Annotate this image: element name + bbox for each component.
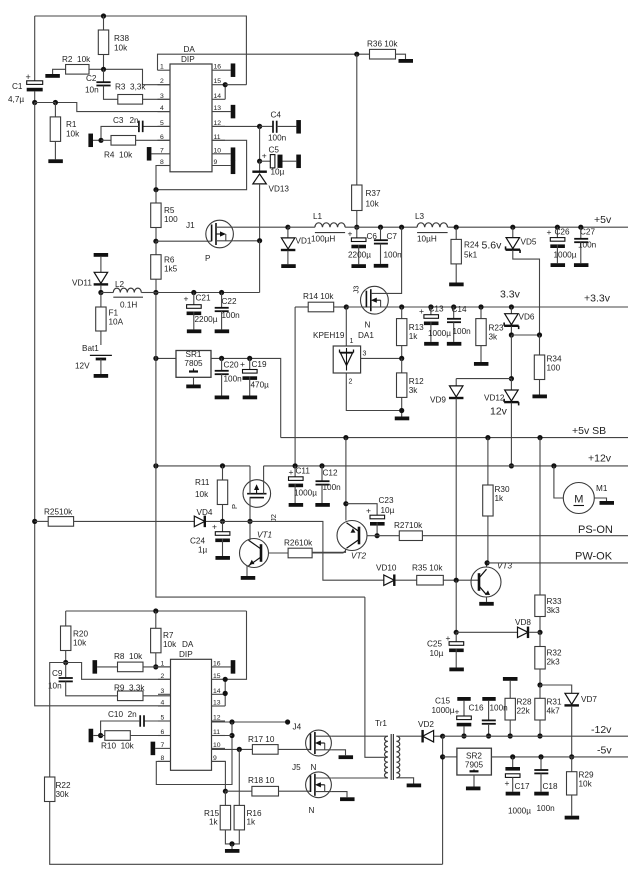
transistor J5 (N-MOSFET) bbox=[292, 763, 388, 815]
svg-text:2: 2 bbox=[161, 673, 165, 680]
IC2 pin stubs and pin numbers bbox=[155, 660, 231, 762]
svg-text:R8 10k: R8 10k bbox=[114, 652, 143, 661]
svg-text:4: 4 bbox=[161, 700, 165, 707]
svg-text:R2 10k: R2 10k bbox=[62, 55, 91, 64]
svg-text:C9: C9 bbox=[52, 669, 63, 678]
svg-text:C19: C19 bbox=[252, 360, 267, 369]
transistor VT1 (NPN) bbox=[240, 521, 273, 576]
wire -5v rail bbox=[491, 756, 628, 758]
transistor J2 (P-MOSFET +12v switch) bbox=[230, 466, 278, 524]
ground below VD1 bbox=[281, 264, 296, 268]
transistor VT2 (PNP) bbox=[312, 521, 377, 561]
capacitor C18 bbox=[534, 754, 558, 813]
label +5v SB bbox=[572, 425, 606, 437]
svg-text:DIP: DIP bbox=[179, 650, 193, 659]
wire PW-OK rail bbox=[487, 562, 628, 564]
svg-text:R7: R7 bbox=[163, 631, 174, 640]
diode VD2 bbox=[418, 720, 445, 742]
resistor R7 bbox=[151, 611, 178, 670]
wire R11/J2 feed from +12v rail bbox=[155, 465, 157, 467]
svg-text:10k: 10k bbox=[195, 490, 209, 499]
svg-text:DIP: DIP bbox=[181, 55, 195, 64]
wire +5v SB rail bbox=[281, 437, 628, 439]
resistor R9 bbox=[114, 684, 171, 701]
svg-text:7: 7 bbox=[161, 742, 165, 749]
svg-text:1µ: 1µ bbox=[198, 546, 208, 555]
capacitor C3 bbox=[101, 116, 170, 140]
ground below R15/R16 bbox=[225, 849, 240, 853]
svg-text:10n: 10n bbox=[85, 86, 99, 95]
wire +3.3v rail bbox=[346, 306, 628, 308]
battery Bat1 bbox=[75, 344, 112, 374]
svg-text:C22: C22 bbox=[222, 297, 237, 306]
svg-text:5.6v: 5.6v bbox=[482, 240, 503, 252]
ground at IC1 pin10 bbox=[231, 147, 236, 161]
svg-text:1000µ: 1000µ bbox=[508, 807, 531, 816]
svg-text:VD8: VD8 bbox=[515, 618, 531, 627]
svg-text:12V: 12V bbox=[75, 362, 90, 371]
resistor R4 bbox=[88, 134, 170, 160]
svg-text:C26: C26 bbox=[555, 228, 570, 237]
svg-text:VD11: VD11 bbox=[72, 279, 92, 288]
ground above C15 bbox=[457, 697, 470, 701]
svg-text:10k: 10k bbox=[114, 44, 128, 53]
svg-text:1: 1 bbox=[161, 660, 165, 667]
capacitor C14 bbox=[447, 304, 471, 342]
svg-text:P: P bbox=[205, 254, 211, 263]
svg-text:+: + bbox=[547, 227, 552, 237]
label PW-OK bbox=[575, 551, 613, 563]
svg-text:L3: L3 bbox=[415, 212, 425, 221]
svg-text:100: 100 bbox=[547, 364, 561, 373]
svg-text:C16: C16 bbox=[469, 704, 484, 713]
svg-text:R20: R20 bbox=[73, 630, 88, 639]
svg-text:R29: R29 bbox=[579, 771, 594, 780]
svg-text:15: 15 bbox=[214, 78, 222, 85]
svg-text:R2510k: R2510k bbox=[44, 508, 73, 517]
resistor R31 bbox=[535, 685, 562, 739]
svg-text:R10 10k: R10 10k bbox=[101, 742, 135, 751]
svg-text:R38: R38 bbox=[114, 34, 129, 43]
svg-text:100n: 100n bbox=[323, 483, 342, 492]
diode VD8 bbox=[454, 580, 540, 638]
svg-text:R13: R13 bbox=[409, 323, 424, 332]
wire battery +12V feed line bbox=[156, 292, 260, 294]
svg-text:10k: 10k bbox=[73, 639, 87, 648]
svg-text:3.3v: 3.3v bbox=[500, 289, 521, 301]
node R2/R38/C2 bbox=[101, 67, 106, 72]
ground below C13 bbox=[424, 342, 439, 346]
ground below SR1 bbox=[186, 385, 201, 389]
svg-text:5: 5 bbox=[160, 120, 164, 127]
svg-text:4k7: 4k7 bbox=[547, 707, 561, 716]
wire top net from C1 to pin15 riser bbox=[35, 13, 247, 84]
resistor R38 bbox=[98, 16, 129, 69]
capacitor C20 bbox=[215, 356, 242, 396]
svg-text:+: + bbox=[240, 359, 245, 369]
svg-text:Tr1: Tr1 bbox=[375, 719, 387, 728]
svg-text:R28: R28 bbox=[517, 698, 532, 707]
fuse F1 bbox=[96, 293, 124, 346]
svg-text:VD10: VD10 bbox=[376, 564, 397, 573]
svg-text:100n: 100n bbox=[453, 327, 472, 336]
svg-text:R18 10: R18 10 bbox=[248, 776, 275, 785]
svg-text:10µ: 10µ bbox=[271, 168, 285, 177]
resistor R26 bbox=[269, 539, 346, 558]
svg-text:R37: R37 bbox=[366, 189, 381, 198]
ground below C25 bbox=[449, 668, 464, 672]
svg-text:1: 1 bbox=[160, 64, 164, 71]
svg-text:3: 3 bbox=[161, 688, 165, 695]
capacitor C16 bbox=[469, 701, 509, 739]
resistor R16 bbox=[229, 749, 262, 849]
ground below R23 bbox=[474, 362, 489, 366]
wire left border bbox=[35, 103, 171, 706]
svg-text:VT1: VT1 bbox=[257, 531, 272, 540]
ground below C21 bbox=[187, 329, 202, 333]
svg-text:10k: 10k bbox=[366, 200, 380, 209]
capacitor C4 bbox=[212, 111, 296, 143]
capacitor C7 bbox=[374, 225, 402, 264]
svg-text:+: + bbox=[366, 506, 371, 516]
svg-text:1000µ: 1000µ bbox=[294, 489, 317, 498]
capacitor C6 bbox=[348, 227, 378, 264]
svg-text:470µ: 470µ bbox=[251, 381, 270, 390]
svg-text:J4: J4 bbox=[293, 723, 302, 732]
svg-text:C23: C23 bbox=[379, 496, 394, 505]
svg-text:PW-OK: PW-OK bbox=[575, 551, 613, 563]
ground at IC2 pin7 bbox=[151, 742, 156, 756]
svg-text:+: + bbox=[262, 151, 267, 161]
svg-text:12: 12 bbox=[213, 715, 221, 722]
svg-text:R4 10k: R4 10k bbox=[104, 151, 133, 160]
svg-text:C7: C7 bbox=[387, 232, 398, 241]
svg-text:+3.3v: +3.3v bbox=[584, 293, 611, 305]
resistor R29 bbox=[567, 757, 594, 816]
svg-text:VT2: VT2 bbox=[351, 552, 366, 561]
resistor R37 bbox=[352, 52, 381, 230]
capacitor C24 bbox=[190, 521, 230, 556]
svg-text:1000µ: 1000µ bbox=[554, 251, 577, 260]
svg-text:2: 2 bbox=[349, 379, 353, 386]
wire SR1 output to +5vSB riser bbox=[211, 358, 281, 437]
svg-text:R35 10k: R35 10k bbox=[412, 564, 443, 573]
svg-text:100n: 100n bbox=[224, 375, 243, 384]
diode VD10 bbox=[376, 564, 417, 586]
resistor R18 bbox=[248, 776, 311, 796]
wire IC1 pin8 loop down to R5 node bbox=[156, 166, 170, 190]
svg-text:3k: 3k bbox=[409, 386, 419, 395]
resistor R17 bbox=[212, 735, 311, 754]
svg-text:1k: 1k bbox=[247, 818, 257, 827]
wire VD4 node to J2 drain and right riser bbox=[223, 521, 384, 580]
svg-text:R12: R12 bbox=[409, 377, 424, 386]
svg-text:+: + bbox=[348, 229, 353, 239]
node VD5/VD6/R34 junction bbox=[511, 332, 542, 337]
wire VT2 emitter riser from +5vSB bbox=[343, 435, 348, 521]
ground right of C4 bbox=[296, 120, 301, 134]
svg-text:2n: 2n bbox=[130, 116, 140, 125]
svg-text:5: 5 bbox=[161, 715, 165, 722]
resistor R28 bbox=[505, 698, 532, 739]
svg-text:VD5: VD5 bbox=[521, 238, 537, 247]
capacitor C1 bbox=[8, 16, 43, 104]
ground below R24 bbox=[449, 283, 464, 287]
svg-text:R22: R22 bbox=[56, 781, 71, 790]
svg-text:3k: 3k bbox=[489, 333, 499, 342]
capacitor C27 bbox=[574, 225, 596, 264]
resistor R2 bbox=[53, 55, 170, 85]
svg-text:+: + bbox=[289, 467, 294, 477]
svg-text:10: 10 bbox=[213, 742, 221, 749]
svg-text:DA: DA bbox=[184, 45, 196, 54]
svg-text:7805: 7805 bbox=[184, 359, 203, 368]
svg-text:9: 9 bbox=[214, 159, 218, 166]
svg-text:1k: 1k bbox=[409, 332, 419, 341]
capacitor C17 bbox=[505, 754, 532, 815]
svg-text:2: 2 bbox=[160, 78, 164, 85]
svg-text:N: N bbox=[365, 321, 371, 330]
svg-text:C21: C21 bbox=[196, 294, 211, 303]
resistor R10 bbox=[89, 729, 171, 751]
node pin15/pin14 junction bbox=[223, 82, 247, 99]
resistor R3 bbox=[115, 83, 170, 105]
ground below C27 bbox=[574, 263, 589, 267]
svg-text:6: 6 bbox=[160, 134, 164, 141]
svg-text:C5: C5 bbox=[269, 146, 280, 155]
svg-text:+: + bbox=[419, 306, 424, 316]
ground below R29 bbox=[565, 816, 580, 820]
svg-text:J5: J5 bbox=[292, 763, 301, 772]
wire lower box top line bbox=[66, 608, 247, 679]
ground below VT1 bbox=[241, 576, 256, 580]
resistor R11 bbox=[195, 463, 228, 524]
wire J3 drain riser from +5v rail bbox=[388, 225, 404, 294]
label +3.3v bbox=[584, 293, 611, 305]
svg-text:100n: 100n bbox=[268, 134, 287, 143]
svg-text:R24: R24 bbox=[464, 241, 479, 250]
ground at IC1 pin16 bbox=[231, 63, 236, 76]
svg-text:KPEH19: KPEH19 bbox=[313, 331, 345, 340]
wire IC2 pin9 to R18 bbox=[212, 761, 252, 793]
ground below C24 bbox=[215, 556, 230, 560]
svg-text:PS-ON: PS-ON bbox=[578, 524, 613, 536]
svg-text:16: 16 bbox=[214, 64, 222, 71]
ground right of M1 bbox=[600, 501, 615, 505]
ground below VT3 bbox=[479, 602, 494, 606]
svg-text:2200µ: 2200µ bbox=[195, 315, 218, 324]
ground left of R2 bbox=[45, 74, 60, 78]
svg-text:R33: R33 bbox=[547, 597, 562, 606]
svg-text:VD6: VD6 bbox=[519, 313, 535, 322]
capacitor C19 bbox=[240, 356, 269, 396]
wire IC1 pin1 riser to top line bbox=[158, 54, 370, 70]
svg-text:R2710k: R2710k bbox=[394, 521, 423, 530]
inductor L1 bbox=[311, 212, 345, 244]
label PS-ON bbox=[578, 524, 613, 536]
ground above VD11 bbox=[94, 253, 109, 272]
resistor R24 bbox=[451, 225, 479, 283]
svg-text:C13: C13 bbox=[429, 305, 444, 314]
capacitor C5 bbox=[257, 126, 296, 176]
resistor R1 bbox=[50, 103, 80, 160]
svg-text:R14 10k: R14 10k bbox=[303, 292, 334, 301]
svg-text:J3: J3 bbox=[352, 286, 361, 294]
svg-text:1k: 1k bbox=[495, 494, 505, 503]
svg-text:100n: 100n bbox=[222, 311, 241, 320]
inductor L3 bbox=[415, 212, 448, 244]
ground below SR2 bbox=[466, 787, 481, 791]
svg-text:1k5: 1k5 bbox=[164, 265, 178, 274]
resistor R27 bbox=[377, 521, 628, 541]
capacitor C2 bbox=[85, 69, 118, 99]
svg-text:SR2: SR2 bbox=[466, 752, 482, 761]
svg-text:R31: R31 bbox=[547, 698, 562, 707]
capacitor C22 bbox=[215, 290, 240, 330]
svg-text:100n: 100n bbox=[578, 241, 597, 250]
capacitor C10 bbox=[101, 710, 171, 736]
svg-text:+5v: +5v bbox=[594, 214, 612, 226]
ground right of C5 bbox=[296, 155, 301, 169]
svg-text:J2: J2 bbox=[269, 514, 278, 522]
svg-text:C15: C15 bbox=[435, 697, 450, 706]
svg-text:J1: J1 bbox=[186, 221, 195, 230]
svg-text:+: + bbox=[184, 294, 189, 304]
resistor R12 bbox=[397, 358, 425, 416]
transistor J3 (N-MOSFET, 3.3v pass element) bbox=[352, 286, 389, 340]
resistor R13 bbox=[397, 304, 425, 361]
label -12v bbox=[591, 724, 612, 736]
ground below C11 bbox=[289, 503, 304, 507]
svg-text:-5v: -5v bbox=[597, 745, 612, 757]
ground below C22 bbox=[215, 329, 230, 333]
svg-text:VD13: VD13 bbox=[269, 185, 290, 194]
diode VD11 bbox=[72, 272, 108, 295]
svg-text:+: + bbox=[212, 522, 217, 532]
svg-text:10µ: 10µ bbox=[430, 649, 444, 658]
ground below C20 bbox=[215, 396, 230, 400]
diode VD9 bbox=[430, 379, 463, 580]
svg-text:3: 3 bbox=[363, 351, 367, 358]
svg-text:P: P bbox=[230, 504, 239, 509]
transistor J4 (N-MOSFET) bbox=[306, 730, 388, 756]
ground below C14 bbox=[447, 342, 462, 346]
resistor R23 bbox=[476, 304, 504, 362]
svg-text:100µH: 100µH bbox=[311, 235, 335, 244]
wire transformer centre tap feed bbox=[365, 597, 388, 757]
svg-text:100n: 100n bbox=[490, 704, 509, 713]
svg-text:VD1: VD1 bbox=[296, 237, 312, 246]
svg-text:10: 10 bbox=[214, 147, 222, 154]
svg-text:R11: R11 bbox=[195, 478, 210, 487]
svg-text:1000µ: 1000µ bbox=[428, 329, 451, 338]
label +12v bbox=[588, 453, 612, 465]
svg-text:R17 10: R17 10 bbox=[248, 735, 275, 744]
ground below C17 bbox=[506, 792, 521, 796]
wire IC2 pin12 to J4 terminal bbox=[212, 719, 302, 731]
svg-text:12v: 12v bbox=[490, 406, 508, 418]
node C1 bottom / left border junction bbox=[32, 100, 37, 105]
svg-text:R5: R5 bbox=[164, 206, 175, 215]
wire R1 node to IC1 pin4 bbox=[35, 100, 170, 112]
wire VD6 node to VD9/VD12 row bbox=[456, 335, 514, 381]
voltage regulator SR1 7805 bbox=[153, 350, 211, 385]
wire IC1 pin11 riser to R5 node bbox=[153, 140, 246, 192]
motor M1 bbox=[551, 463, 608, 513]
svg-text:2200µ: 2200µ bbox=[348, 251, 371, 260]
resistor R32 bbox=[535, 632, 562, 687]
svg-text:R6: R6 bbox=[164, 256, 175, 265]
ground at IC2 pin16 bbox=[231, 660, 236, 674]
svg-text:M: M bbox=[574, 494, 583, 506]
svg-text:C10 2n: C10 2n bbox=[108, 710, 137, 719]
svg-text:C1: C1 bbox=[12, 82, 23, 91]
svg-text:30k: 30k bbox=[56, 790, 70, 799]
ground below C6 bbox=[351, 264, 366, 268]
resistor R14 bbox=[295, 292, 349, 312]
ground below C18 bbox=[534, 792, 549, 796]
ground at IC1 pin13 bbox=[231, 105, 236, 119]
capacitor C12 bbox=[316, 463, 342, 503]
svg-text:10k: 10k bbox=[579, 780, 593, 789]
ground below R34 bbox=[532, 395, 547, 399]
svg-text:14: 14 bbox=[213, 688, 221, 695]
wire J1 drain to +5v rail bbox=[233, 226, 288, 228]
diode VD6 (zener 3.3v) bbox=[500, 289, 535, 338]
svg-text:C27: C27 bbox=[580, 228, 595, 237]
svg-text:100: 100 bbox=[164, 215, 178, 224]
ground below C19 bbox=[243, 396, 258, 400]
resistor R36 bbox=[367, 40, 406, 60]
svg-text:10k: 10k bbox=[66, 130, 80, 139]
resistor R5 bbox=[151, 190, 178, 244]
capacitor C13 bbox=[419, 304, 451, 342]
svg-text:+: + bbox=[455, 707, 460, 717]
svg-text:R34: R34 bbox=[547, 355, 562, 364]
svg-text:M1: M1 bbox=[596, 484, 608, 493]
wire -12v rail bbox=[443, 735, 628, 737]
resistor R25 bbox=[32, 508, 194, 527]
svg-text:3k3: 3k3 bbox=[547, 606, 561, 615]
ground below C26 bbox=[551, 263, 566, 267]
transistor VT3 (NPN) bbox=[471, 562, 512, 602]
svg-text:100n: 100n bbox=[384, 251, 403, 260]
svg-text:N: N bbox=[311, 763, 317, 772]
svg-text:10A: 10A bbox=[109, 318, 124, 327]
svg-text:R3 3,3k: R3 3,3k bbox=[115, 83, 146, 92]
svg-text:N: N bbox=[309, 806, 315, 815]
wire J1 source to VD13 column bbox=[233, 238, 262, 292]
svg-text:-12v: -12v bbox=[591, 724, 612, 736]
ground at IC1 pin7 bbox=[147, 147, 152, 161]
capacitor C23 bbox=[346, 496, 395, 538]
resistor R35 bbox=[412, 564, 479, 586]
svg-text:VD2: VD2 bbox=[418, 720, 434, 729]
svg-text:0.1H: 0.1H bbox=[120, 301, 137, 310]
wire IC2 pin11/pin8 loop bbox=[156, 722, 234, 785]
svg-text:VD7: VD7 bbox=[581, 695, 597, 704]
label -5v bbox=[597, 745, 612, 757]
svg-text:C12: C12 bbox=[323, 469, 338, 478]
diode VD7 bbox=[540, 685, 597, 760]
voltage regulator SR2 7905 bbox=[457, 748, 492, 786]
resistor R22 bbox=[45, 777, 443, 864]
svg-text:R1: R1 bbox=[66, 120, 77, 129]
svg-text:100n: 100n bbox=[537, 804, 556, 813]
svg-text:C24: C24 bbox=[190, 537, 205, 546]
svg-text:7: 7 bbox=[160, 147, 164, 154]
resistor R33 bbox=[535, 435, 562, 635]
